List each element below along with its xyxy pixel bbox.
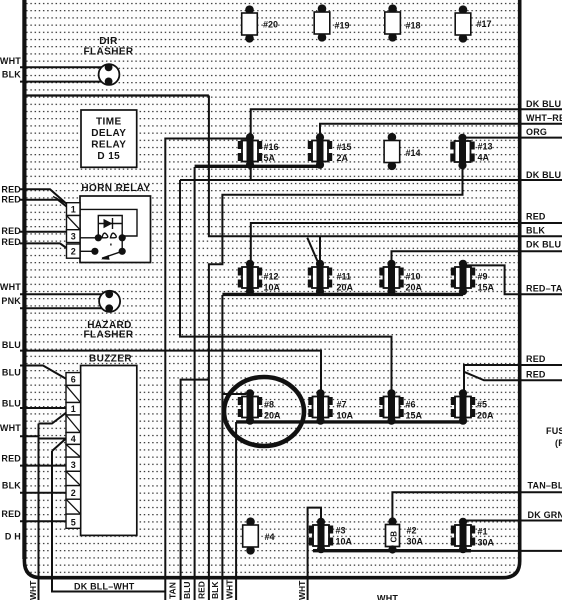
svg-text:#9: #9 <box>478 272 488 282</box>
svg-text:D 15: D 15 <box>97 151 120 162</box>
svg-text:2: 2 <box>71 488 76 498</box>
svg-text:BLK: BLK <box>2 481 21 491</box>
svg-text:DK BLU: DK BLU <box>526 99 561 109</box>
svg-text:HORN RELAY: HORN RELAY <box>81 183 150 194</box>
svg-text:20A: 20A <box>337 283 354 293</box>
svg-text:#17: #17 <box>477 19 492 29</box>
svg-text:DIR: DIR <box>99 36 118 47</box>
svg-text:#1: #1 <box>478 527 488 537</box>
svg-text:PNK: PNK <box>1 296 21 306</box>
svg-text:#15: #15 <box>337 142 352 152</box>
svg-text:1: 1 <box>71 205 76 215</box>
svg-text:20A: 20A <box>406 283 423 293</box>
svg-text:4: 4 <box>71 434 76 444</box>
svg-text:BLK: BLK <box>526 226 545 236</box>
svg-text:D H: D H <box>5 532 21 542</box>
svg-text:RED: RED <box>1 185 21 195</box>
svg-text:#13: #13 <box>478 142 493 152</box>
svg-text:6: 6 <box>71 375 76 385</box>
svg-text:TAN: TAN <box>168 582 178 599</box>
svg-text:#20: #20 <box>263 20 278 30</box>
svg-text:#19: #19 <box>335 21 350 31</box>
svg-text:4A: 4A <box>478 153 490 163</box>
svg-text:WHT: WHT <box>0 282 21 292</box>
svg-text:RED: RED <box>1 195 21 205</box>
svg-text:10A: 10A <box>337 411 354 421</box>
svg-text:10A: 10A <box>336 537 353 547</box>
svg-text:15A: 15A <box>406 411 423 421</box>
svg-text:#2: #2 <box>407 526 417 536</box>
svg-text:RED–TA: RED–TA <box>526 284 562 294</box>
svg-text:BLU: BLU <box>2 399 21 409</box>
svg-text:#12: #12 <box>264 272 279 282</box>
svg-text:TIME: TIME <box>96 117 122 128</box>
svg-text:WHT: WHT <box>0 56 21 66</box>
svg-text:30A: 30A <box>407 537 424 547</box>
svg-text:20A: 20A <box>264 411 281 421</box>
svg-text:FLASHER: FLASHER <box>83 330 133 341</box>
svg-text:2A: 2A <box>337 153 349 163</box>
svg-text:DK BLU: DK BLU <box>526 240 561 250</box>
svg-text:RED: RED <box>1 237 21 247</box>
svg-text:RED: RED <box>1 509 21 519</box>
svg-text:BUZZER: BUZZER <box>89 354 132 365</box>
svg-text:#4: #4 <box>265 532 275 542</box>
svg-text:#14: #14 <box>406 148 421 158</box>
svg-text:DK GRN: DK GRN <box>528 510 562 520</box>
svg-text:BLU: BLU <box>182 582 192 599</box>
svg-text:WHT: WHT <box>28 580 38 600</box>
svg-text:RED: RED <box>1 454 21 464</box>
svg-text:30A: 30A <box>478 538 495 548</box>
svg-text:15A: 15A <box>478 283 495 293</box>
svg-text:3: 3 <box>71 460 76 470</box>
svg-text:#5: #5 <box>477 400 487 410</box>
svg-text:BLK: BLK <box>210 581 220 599</box>
svg-text:#6: #6 <box>406 400 416 410</box>
svg-text:FLASHER: FLASHER <box>83 47 133 58</box>
svg-text:WHT: WHT <box>297 580 307 600</box>
svg-text:20A: 20A <box>477 411 494 421</box>
svg-text:3: 3 <box>71 232 76 242</box>
svg-text:WHT–RE: WHT–RE <box>526 113 562 123</box>
svg-text:RED: RED <box>526 370 546 380</box>
svg-text:DK BLU: DK BLU <box>526 170 561 180</box>
svg-text:RED: RED <box>1 226 21 236</box>
svg-text:CB: CB <box>389 531 398 543</box>
svg-text:ORG: ORG <box>526 127 547 137</box>
svg-text:BLU: BLU <box>2 340 21 350</box>
svg-text:FUSE: FUSE <box>546 426 562 436</box>
svg-text:BLU: BLU <box>2 368 21 378</box>
svg-text:RED: RED <box>526 212 546 222</box>
svg-text:#11: #11 <box>337 272 352 282</box>
svg-text:10A: 10A <box>264 283 281 293</box>
svg-text:WHT: WHT <box>0 423 21 433</box>
svg-text:RED: RED <box>526 354 546 364</box>
svg-text:DELAY: DELAY <box>91 128 126 139</box>
svg-text:RED: RED <box>197 581 207 599</box>
svg-text:5: 5 <box>71 517 76 527</box>
svg-text:#7: #7 <box>337 400 347 410</box>
svg-text:#18: #18 <box>406 21 421 31</box>
svg-text:(PR: (PR <box>555 438 562 448</box>
svg-text:WHT: WHT <box>377 594 398 600</box>
svg-text:#16: #16 <box>264 142 279 152</box>
svg-text:#3: #3 <box>336 526 346 536</box>
svg-text:DK BLL–WHT: DK BLL–WHT <box>74 582 135 592</box>
svg-text:#10: #10 <box>406 272 421 282</box>
svg-text:RELAY: RELAY <box>91 140 126 151</box>
svg-text:TAN–BL: TAN–BL <box>528 481 562 491</box>
svg-text:5A: 5A <box>264 153 276 163</box>
svg-text:1: 1 <box>71 404 76 414</box>
svg-text:2: 2 <box>71 247 76 257</box>
svg-text:BLK: BLK <box>2 70 21 80</box>
svg-text:#8: #8 <box>264 400 274 410</box>
svg-text:WHT: WHT <box>225 579 235 599</box>
